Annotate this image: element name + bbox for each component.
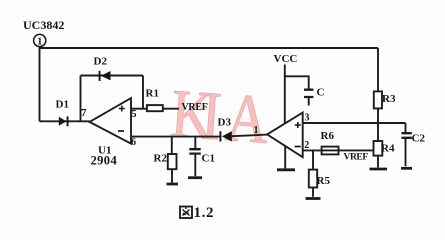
svg-text:VREF: VREF <box>182 102 208 113</box>
svg-text:7: 7 <box>81 107 87 119</box>
svg-text:2904: 2904 <box>91 154 118 168</box>
svg-text:1: 1 <box>37 37 42 48</box>
capacitor C2 plates <box>402 133 412 138</box>
caption 图1.2 <box>180 205 214 221</box>
wire: D3 to U2 output apex <box>232 135 267 137</box>
capacitor C1 plates <box>189 149 200 153</box>
capacitor C plates <box>304 90 313 97</box>
wire: R4 lower lead <box>377 156 379 168</box>
wire: R2 lower lead <box>171 169 173 182</box>
svg-text:3: 3 <box>305 113 310 124</box>
KIA watermark <box>168 75 271 158</box>
op-amp U1 plus sign <box>119 106 125 112</box>
ground below R5 <box>306 197 321 200</box>
diode D2 <box>101 71 111 80</box>
svg-text:R2: R2 <box>154 153 168 165</box>
wire: pin 3 horizontal to R3/R4 node and C2 <box>303 122 406 124</box>
op-amp U2 minus sign <box>295 146 301 148</box>
svg-text:5: 5 <box>132 109 137 120</box>
svg-text:1: 1 <box>254 125 259 136</box>
wire: R1 to VREF label <box>163 108 179 110</box>
ground below C2 <box>401 167 412 170</box>
svg-text:D2: D2 <box>94 56 108 68</box>
wire: feedback loop top horizontal with D2 <box>81 75 144 77</box>
svg-text:2: 2 <box>304 140 309 151</box>
op-amp U1 <box>90 98 132 144</box>
svg-text:R1: R1 <box>146 88 159 100</box>
svg-text:C1: C1 <box>202 153 215 165</box>
resistor R6 <box>322 147 339 155</box>
resistor R1 <box>147 105 163 111</box>
diode D3 <box>222 131 232 141</box>
node 1 terminal circle <box>34 34 46 47</box>
ground below C1 <box>188 176 202 179</box>
wire: pin 5 to R1 <box>131 108 147 110</box>
op-amp U2 plus sign <box>295 122 301 128</box>
wire: feedback loop left vertical <box>80 76 82 122</box>
resistor R2 <box>168 154 177 169</box>
resistor R3 <box>374 91 382 108</box>
wire: C2 stem <box>405 123 407 132</box>
svg-text:R4: R4 <box>381 143 395 155</box>
wire: R2 stem <box>171 137 173 154</box>
wire: C1 stem <box>194 137 196 149</box>
wire: pin 6 output line to D3 <box>131 136 220 138</box>
svg-text:R3: R3 <box>382 93 396 105</box>
wire: feedback loop right vertical down to pin 5 line <box>142 76 144 109</box>
svg-text:VREF: VREF <box>344 153 369 163</box>
svg-text:1.2: 1.2 <box>194 205 215 221</box>
svg-text:C: C <box>317 87 325 99</box>
svg-text:6: 6 <box>131 137 136 148</box>
op-amp U2 <box>267 113 303 158</box>
wire: R5 lower lead <box>312 188 314 197</box>
wire: D1 horizontal to U1 output pin 7 <box>40 120 90 122</box>
resistor R4 <box>374 141 383 156</box>
wire: C bottom lead <box>308 98 310 106</box>
wire: R3 to R4 vertical crossing pin3 line <box>377 108 379 141</box>
wire: right vertical upper (top bus to R3) <box>377 48 379 91</box>
wire: VCC stem down to U2 top edge <box>284 65 286 124</box>
svg-text:D1: D1 <box>56 99 69 111</box>
wire: R5 stem <box>312 150 314 169</box>
op-amp U1 minus sign <box>118 130 124 132</box>
wire: top bus from node 1 to right vertical <box>40 47 379 48</box>
wire: C2 lower lead <box>405 139 407 166</box>
ground below U2 <box>277 168 295 171</box>
wire: U2 V- stem to ground <box>284 146 286 169</box>
svg-text:D3: D3 <box>218 117 232 129</box>
svg-text:UC3842: UC3842 <box>23 18 64 32</box>
wire: C1 lower lead <box>194 155 196 177</box>
svg-text:R5: R5 <box>317 175 331 187</box>
wire: VCC branch to capacitor C <box>285 76 309 88</box>
wire: left vertical from node 1 down to D1 level <box>39 48 41 121</box>
ground below R2 <box>167 183 179 186</box>
diode D1 <box>59 117 67 126</box>
wire: pin 2 horizontal through R6 to R4 <box>303 149 374 151</box>
svg-text:C2: C2 <box>412 133 426 145</box>
resistor R5 <box>309 170 317 188</box>
ground below R4 <box>370 168 388 171</box>
svg-text:VCC: VCC <box>274 53 298 65</box>
svg-text:R6: R6 <box>321 130 335 142</box>
